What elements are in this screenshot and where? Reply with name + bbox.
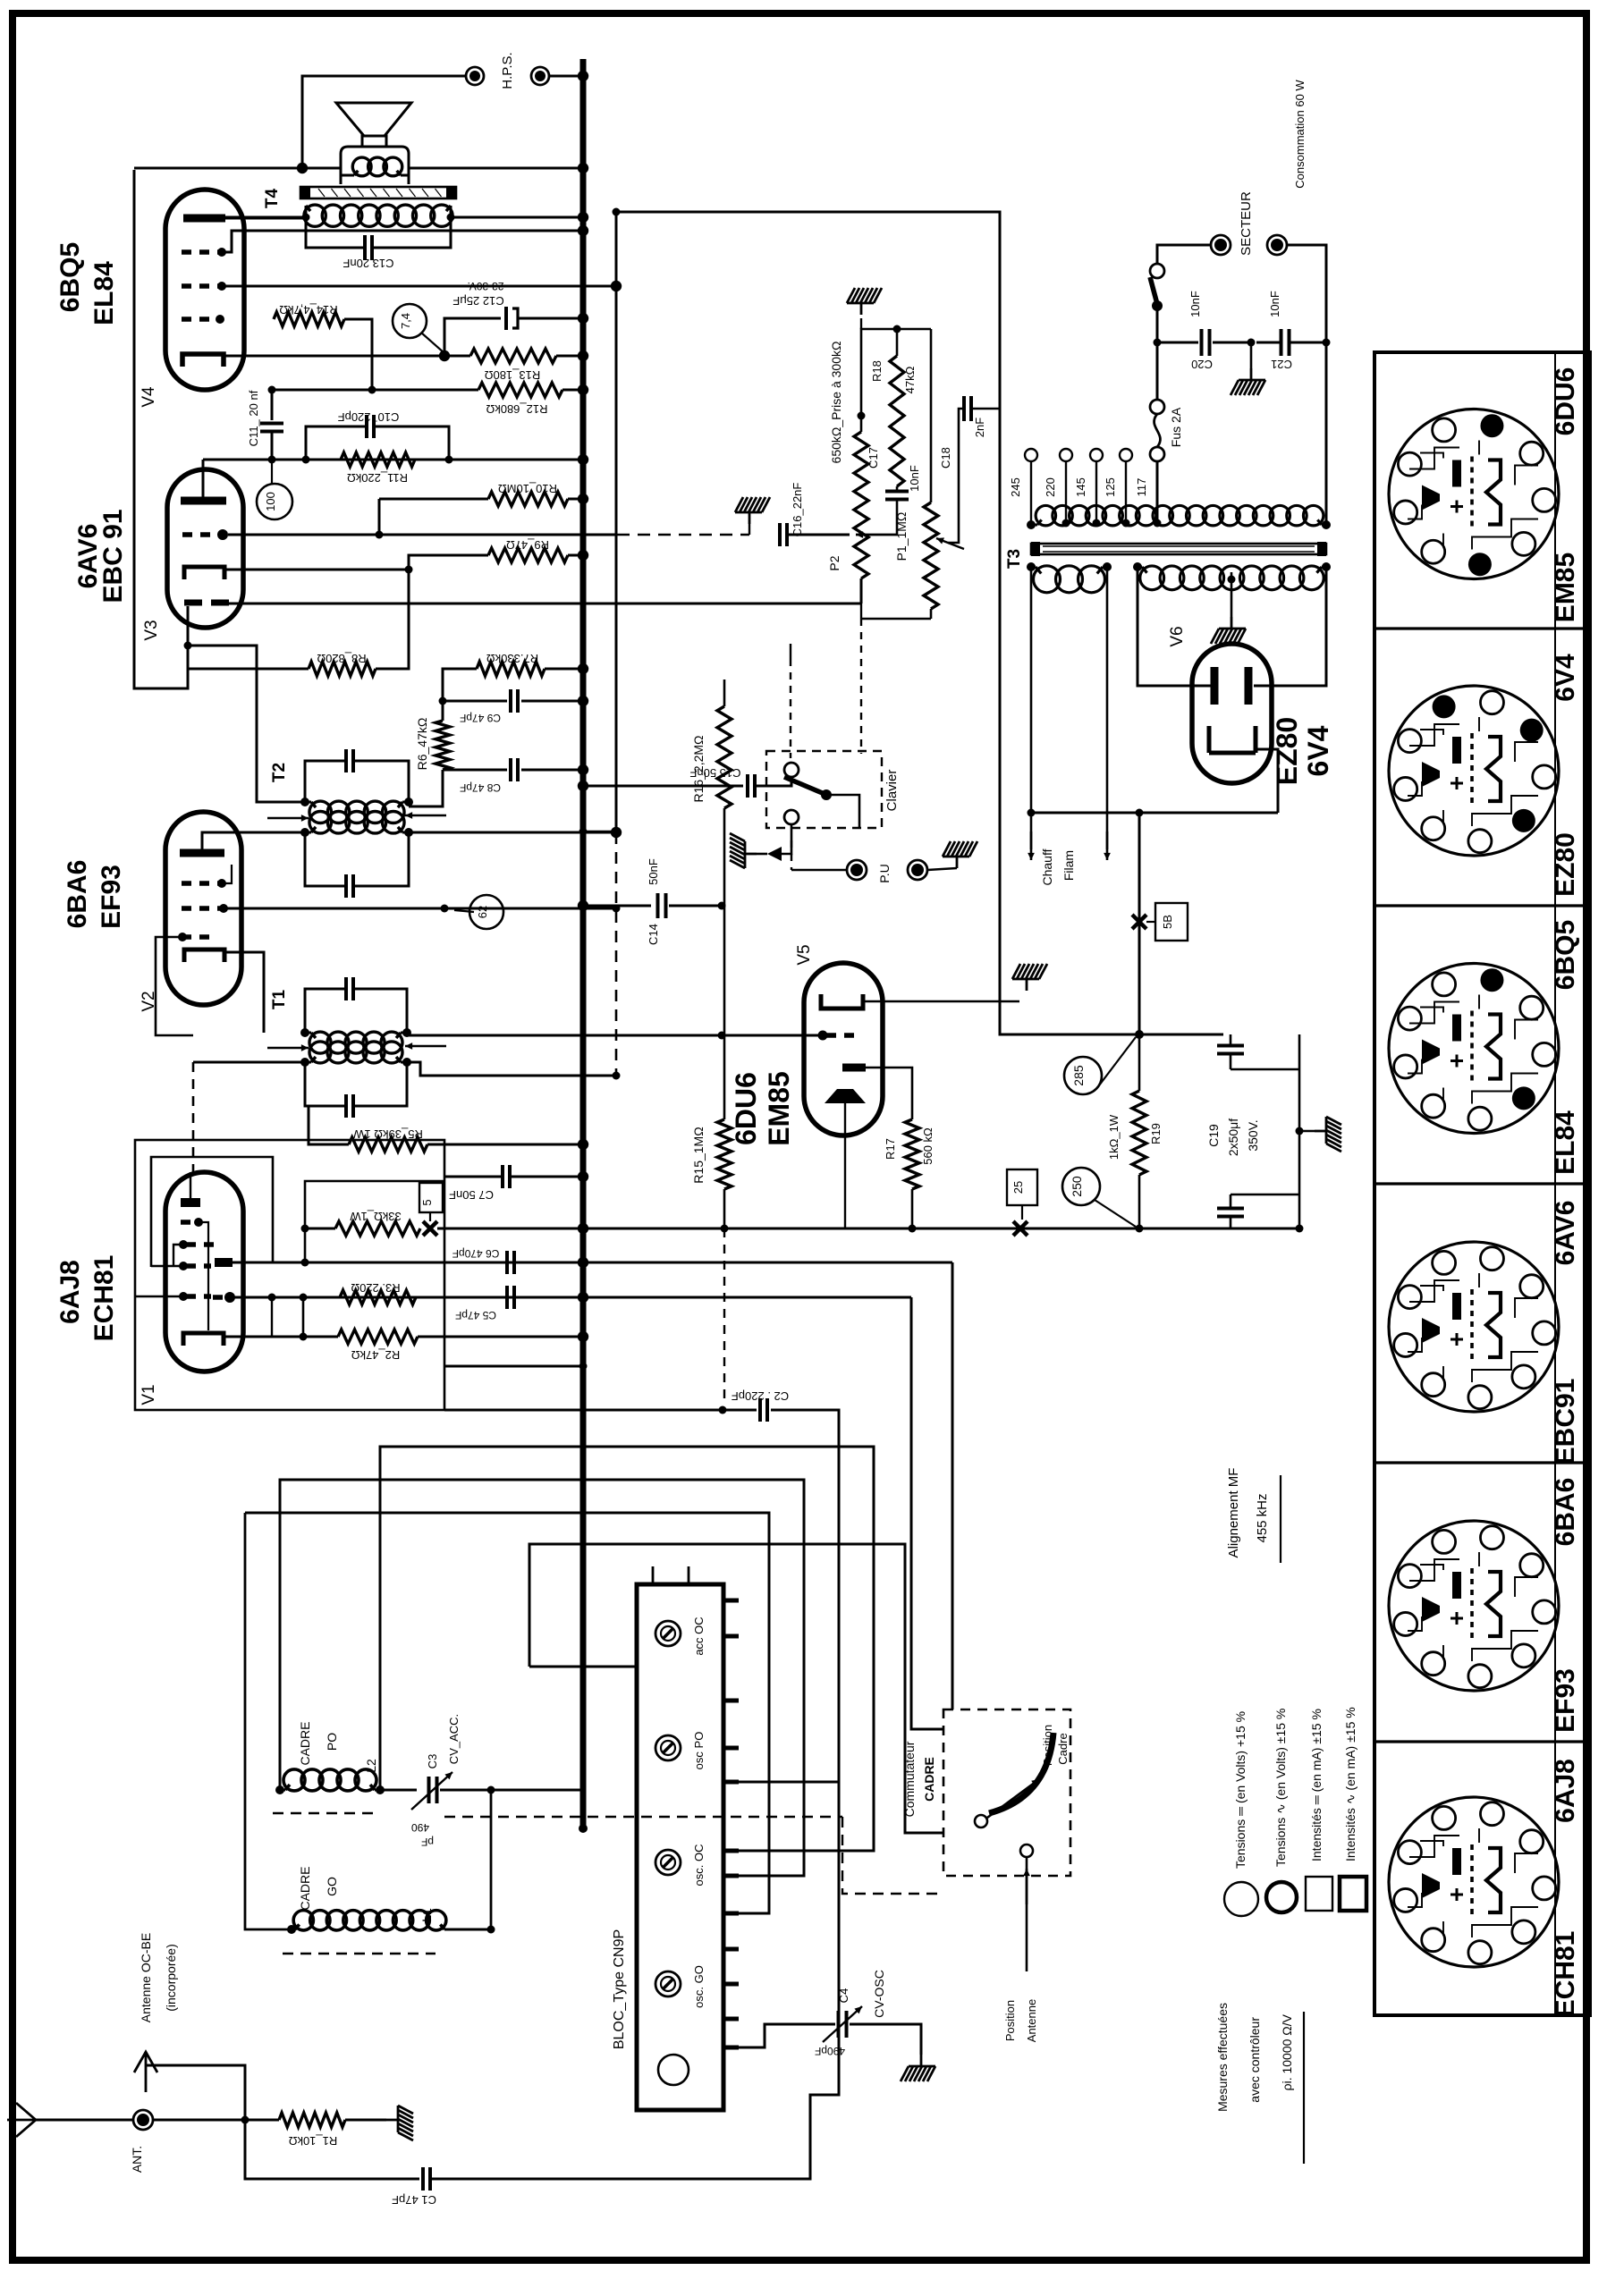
svg-text:6BQ5: 6BQ5 <box>1551 920 1580 990</box>
svg-text:C18: C18 <box>939 447 952 468</box>
svg-text:CADRE: CADRE <box>922 1757 936 1802</box>
V6 cathode <box>1209 726 1256 753</box>
svg-text:6DU6: 6DU6 <box>730 1072 762 1145</box>
wire bus-AVC link <box>583 831 616 833</box>
wire R15 bottom <box>723 1189 726 1228</box>
ground AVC line <box>735 497 770 524</box>
resistor R8 <box>309 662 376 676</box>
svg-text:C14: C14 <box>647 924 660 945</box>
V3 cathode <box>184 567 224 579</box>
wire R4 feed <box>305 1181 444 1262</box>
svg-text:10nF: 10nF <box>1188 291 1202 317</box>
svg-text:490pF: 490pF <box>815 2045 845 2057</box>
wire filament right <box>1106 567 1109 849</box>
tap 245 <box>1030 461 1032 523</box>
capacitor C2 <box>758 1398 762 1422</box>
clavier contact bottom <box>784 810 799 824</box>
svg-text:V2: V2 <box>140 991 158 1011</box>
svg-text:P.U: P.U <box>877 864 892 883</box>
svg-text:L2: L2 <box>364 1759 378 1773</box>
pointer box 5B <box>1155 903 1188 941</box>
wire V6 cathode out <box>1256 749 1278 813</box>
V1 cathode <box>183 1333 224 1346</box>
transformer T1 primary frame <box>305 1062 345 1106</box>
trimmer osc PO <box>655 1735 681 1760</box>
resistor R7 <box>477 662 545 676</box>
socket panel divider 2 <box>1374 904 1590 907</box>
svg-text:6AJ8: 6AJ8 <box>1551 1759 1580 1823</box>
V3 anode plate <box>181 497 226 505</box>
V4 grid3 row <box>182 283 220 289</box>
resistor R19 <box>1132 1091 1146 1175</box>
svg-text:47kΩ: 47kΩ <box>903 366 917 393</box>
legend square thin <box>1306 1877 1332 1911</box>
wire P1 bottom <box>930 609 933 619</box>
resistor R6 <box>436 721 450 770</box>
wire C15 to clavier <box>757 776 791 786</box>
wire C17 to wiper <box>856 500 897 535</box>
wire R16 top <box>723 680 726 706</box>
svg-text:Clavier: Clavier <box>884 770 900 812</box>
V2 grid2 row <box>182 934 215 940</box>
capacitor C8 <box>443 769 507 772</box>
wire position antenne arrow <box>1026 1857 1028 1971</box>
svg-text:C12 25μF: C12 25μF <box>452 294 503 308</box>
svg-text:Fus 2A: Fus 2A <box>1169 407 1183 447</box>
svg-text:650kΩ_Prise à 300kΩ: 650kΩ_Prise à 300kΩ <box>829 342 843 464</box>
svg-text:2x50μf: 2x50μf <box>1226 1118 1240 1156</box>
svg-text:C21: C21 <box>1271 358 1292 371</box>
socket panel outer box <box>1374 352 1590 2015</box>
antenna main symbol <box>7 2103 36 2137</box>
capacitor T2 secondary trimmer <box>344 749 348 772</box>
legend square thick <box>1340 1877 1366 1911</box>
tube V3 6AV6/EBC91 envelope <box>167 469 243 628</box>
V4 grid1 row <box>182 317 216 322</box>
wire secteur left <box>1157 245 1211 264</box>
svg-text:23-30V.: 23-30V. <box>468 280 504 292</box>
wire R16-R15 link <box>723 808 726 1119</box>
wire T2 primary left to V2 plate <box>202 832 305 849</box>
svg-text:CV_ACC.: CV_ACC. <box>447 1714 461 1764</box>
svg-text:ECH81: ECH81 <box>1551 1931 1580 2018</box>
svg-text:C7 50nF: C7 50nF <box>449 1188 494 1202</box>
clavier dashed box <box>766 751 882 828</box>
socket 6DU6 internal electrodes <box>1408 441 1538 550</box>
V1 heptode anode bar <box>215 1258 233 1267</box>
commutateur dashed box <box>943 1709 1070 1876</box>
terminal SECTEUR left <box>1211 235 1231 255</box>
wire C16 to P2 wiper <box>789 534 850 536</box>
svg-text:490: 490 <box>411 1821 429 1834</box>
wire C11 bottom <box>271 432 274 460</box>
svg-text:C8 47pF: C8 47pF <box>460 781 501 794</box>
wire R3-R2 link <box>302 1297 305 1337</box>
wire V1 g row1 internal <box>199 1222 208 1330</box>
svg-text:R19: R19 <box>1149 1123 1163 1144</box>
svg-text:117: 117 <box>1135 478 1148 497</box>
capacitor C4 variable <box>837 2011 841 2038</box>
coil T3 primary <box>1036 505 1055 525</box>
commutateur wiper <box>987 1779 1039 1818</box>
tap 125 <box>1122 519 1130 528</box>
V1 osc grid row <box>179 1292 188 1301</box>
meter circle 100 <box>257 484 292 519</box>
capacitor C5 <box>416 1296 503 1299</box>
wire C15 rail <box>583 785 743 788</box>
socket label divider <box>1554 1742 1556 2015</box>
V5 target screen <box>825 1089 866 1103</box>
resistor R12 <box>478 383 562 397</box>
svg-text:CV-OSC: CV-OSC <box>872 1970 886 2018</box>
pointer box 25 <box>1007 1169 1037 1205</box>
switch mains contact <box>1150 264 1164 278</box>
socket 6BA6 internal electrodes <box>1408 1552 1538 1661</box>
socket 6AV6/EBC91 circle <box>1389 1242 1559 1412</box>
coil T2 primary <box>309 811 331 832</box>
svg-text:350V.: 350V. <box>1246 1119 1260 1151</box>
svg-text:BLOC_Type CN9P: BLOC_Type CN9P <box>612 1929 627 2049</box>
socket 6BA6/EF93 circle <box>1389 1521 1559 1691</box>
svg-text:Filam: Filam <box>1061 850 1076 881</box>
terminal H.P.S. left <box>466 67 484 85</box>
resistor R5 <box>349 1137 427 1152</box>
ground V5 cathode <box>1012 964 1047 991</box>
V1 enclosing box <box>135 1140 444 1410</box>
socket 6DU6 pins <box>1398 452 1421 476</box>
socket 6BQ5 pins <box>1398 1007 1421 1030</box>
arrow P2 wiper <box>856 534 897 536</box>
socket 6V4 pins <box>1398 730 1421 753</box>
svg-text:R15_1MΩ: R15_1MΩ <box>691 1127 706 1183</box>
V3 diode plates <box>184 600 202 606</box>
capacitor C19a <box>1230 1034 1232 1044</box>
wire B+ from cathode <box>1138 813 1141 1034</box>
wire V1 top lead <box>190 1172 191 1203</box>
wire dashed GO link <box>444 1816 842 1818</box>
svg-text:R16_2,2MΩ: R16_2,2MΩ <box>691 735 706 802</box>
bloc terminal stubs <box>723 1599 739 1603</box>
svg-text:EF93: EF93 <box>97 865 126 929</box>
svg-text:560 kΩ: 560 kΩ <box>921 1127 935 1165</box>
svg-text:Position: Position <box>1003 2000 1017 2041</box>
wire T1 primary left osc (dashed) <box>193 1061 305 1064</box>
V1 grid row1 <box>181 1220 195 1225</box>
wire T1 secondary right to V5 grid <box>407 1034 823 1037</box>
svg-text:Commutateur: Commutateur <box>902 1741 917 1817</box>
wire R17 bottom <box>911 1189 914 1228</box>
svg-text:T4: T4 <box>263 188 282 208</box>
svg-text:R7.330kΩ: R7.330kΩ <box>486 652 538 665</box>
svg-text:C19: C19 <box>1206 1124 1221 1147</box>
svg-text:EM85: EM85 <box>1551 553 1580 622</box>
svg-text:C11_ 20 nf: C11_ 20 nf <box>247 390 260 446</box>
wire V4 plate lead <box>225 217 306 220</box>
coil T4 primary <box>304 205 326 226</box>
speaker LS cone <box>336 103 411 136</box>
svg-text:CADRE: CADRE <box>298 1866 312 1910</box>
capacitor C12 electrolytic <box>444 318 501 356</box>
V1 screen feed box <box>151 1157 273 1267</box>
V5 grid row <box>818 1031 828 1041</box>
wire V5 target down <box>844 1103 846 1228</box>
coil T3 HT secondary <box>1140 566 1164 590</box>
terminal SECTEUR right <box>1267 235 1287 255</box>
wire V3 plate rail <box>203 459 583 461</box>
capacitor C16 <box>778 523 782 546</box>
wire T1 primary right <box>407 1062 616 1076</box>
capacitor C15 <box>746 774 749 798</box>
svg-text:R8_820Ω: R8_820Ω <box>317 652 367 665</box>
capacitor T1 secondary trimmer <box>344 977 348 1000</box>
svg-text:osc. OC: osc. OC <box>692 1844 706 1887</box>
wire P2 top node <box>861 329 931 416</box>
wire V2 g1 long (AVC) <box>224 907 616 910</box>
svg-text:220: 220 <box>1044 477 1057 497</box>
wire V4 g3 long <box>222 285 616 288</box>
trimmer acc OC <box>655 1621 681 1646</box>
tuning arrows T2 <box>267 817 309 820</box>
svg-text:T3: T3 <box>1005 549 1024 569</box>
svg-text:EZ80: EZ80 <box>1271 717 1303 785</box>
V1 grid row3 <box>179 1262 188 1270</box>
ground HT center <box>1211 617 1246 644</box>
svg-text:Tensions ∿ (en Volts) ±15 %: Tensions ∿ (en Volts) ±15 % <box>1273 1709 1288 1867</box>
svg-text:Tensions ═ (en Volts) +15: Tensions ═ (en Volts) +15 % <box>1233 1711 1248 1869</box>
socket 6AJ8 pins <box>1398 1841 1421 1864</box>
node speaker-wire <box>297 163 308 173</box>
switch mains lever <box>1150 277 1157 304</box>
coil T1 primary <box>309 1042 331 1063</box>
svg-text:100: 100 <box>264 492 277 511</box>
socket panel divider 1 <box>1374 627 1590 629</box>
resistor R9 <box>488 548 568 562</box>
capacitor C6 <box>505 1251 509 1274</box>
wire AVC vertical <box>615 212 618 832</box>
resistor R16 <box>717 706 732 808</box>
svg-text:125: 125 <box>1104 477 1117 497</box>
meter circle 285 <box>1064 1057 1102 1094</box>
svg-text:C4: C4 <box>837 1988 850 2004</box>
svg-text:C6 470pF: C6 470pF <box>452 1247 500 1260</box>
svg-text:T2: T2 <box>270 763 289 782</box>
wire secteur right <box>1287 245 1326 525</box>
svg-text:6AJ8: 6AJ8 <box>55 1260 85 1324</box>
svg-text:P1_1MΩ: P1_1MΩ <box>894 512 909 561</box>
transformer T4 core <box>300 187 456 198</box>
V5 cathode staple <box>821 994 863 1009</box>
wire fuse to tap <box>1156 461 1159 523</box>
bloc top stubs <box>652 1566 655 1584</box>
tube V4 6BQ5/EL84 envelope <box>165 190 244 390</box>
wire PU right ground <box>927 868 957 870</box>
svg-text:Antenne OC-BE: Antenne OC-BE <box>139 1933 153 2022</box>
trimmer osc OC <box>655 1850 681 1875</box>
svg-text:Position: Position <box>1041 1725 1054 1766</box>
socket 6AJ8/ECH81 circle <box>1389 1797 1559 1967</box>
svg-text:6BA6: 6BA6 <box>1551 1478 1580 1547</box>
wire bloc stub links <box>739 2024 835 2047</box>
legend circle thin <box>1224 1882 1258 1916</box>
socket 6AV6 pins <box>1398 1286 1421 1309</box>
svg-text:avec contrôleur: avec contrôleur <box>1248 2017 1262 2103</box>
wire C11 top <box>272 389 372 392</box>
svg-text:R1_10kΩ: R1_10kΩ <box>288 2134 337 2148</box>
terminal PU right <box>908 860 927 880</box>
svg-text:Consommation 60 W: Consommation 60 W <box>1293 80 1307 189</box>
wire bundle v x1019 <box>911 1297 943 1729</box>
svg-text:C10˙ 220pF: C10˙ 220pF <box>338 410 400 424</box>
svg-text:6BQ5: 6BQ5 <box>55 242 85 312</box>
resistor R10 <box>488 492 568 506</box>
svg-text:SECTEUR: SECTEUR <box>1239 191 1254 256</box>
resistor R14 <box>274 312 344 326</box>
wire T2 primary right (AVC) <box>409 831 616 834</box>
coil T2 secondary <box>309 801 331 823</box>
ground P2 top <box>847 288 882 315</box>
wire filament left <box>1030 567 1033 849</box>
V6 anode plates <box>1211 667 1219 705</box>
svg-text:EF93: EF93 <box>1551 1668 1580 1733</box>
svg-text:R14_4,7kΩ: R14_4,7kΩ <box>279 303 338 317</box>
svg-text:EZ80: EZ80 <box>1551 832 1580 897</box>
socket 6AV6 internal electrodes <box>1408 1273 1538 1382</box>
ground mains filter <box>1250 342 1253 368</box>
capacitor C18 <box>962 396 966 421</box>
svg-text:pF: pF <box>421 1836 434 1848</box>
svg-text:EL84: EL84 <box>1551 1110 1580 1175</box>
svg-text:R9_47Ω: R9_47Ω <box>506 538 549 552</box>
socket 6V4/EZ80 circle <box>1389 686 1559 856</box>
resistor R15 <box>717 1119 732 1189</box>
wire clavier to PU <box>782 824 791 854</box>
svg-text:EBC 91: EBC 91 <box>98 509 128 603</box>
svg-text:245: 245 <box>1009 477 1022 497</box>
wire V1 box bottom rail <box>444 1409 757 1412</box>
V4 grid2 row <box>182 249 220 255</box>
legend circle thick <box>1266 1882 1297 1912</box>
wire R1 to ground <box>345 2119 386 2122</box>
wire bundle v x1065 <box>952 1262 954 1709</box>
wire V2 g2 left <box>156 937 193 1035</box>
wire ant to R1 <box>153 2119 279 2122</box>
coil T4 secondary <box>352 157 371 176</box>
wire PU dashed <box>791 840 792 870</box>
coil L1 CADRE GO <box>293 1911 313 1930</box>
wire clavier lever out <box>826 795 859 828</box>
svg-text:Intensités ∿ (en mA) ±15 %: Intensités ∿ (en mA) ±15 % <box>1343 1707 1357 1861</box>
wire HT long bottom <box>583 1228 1163 1230</box>
BLOC box <box>637 1584 723 2110</box>
capacitor C21 <box>1280 329 1283 356</box>
X mark 25 <box>1013 1221 1028 1236</box>
wire HT right to V6 <box>1254 567 1326 686</box>
svg-text:Cadre: Cadre <box>1056 1733 1070 1764</box>
wire HT+ bus <box>580 59 587 1828</box>
wire AVC dashed to C2 <box>723 1228 725 1404</box>
svg-text:Mesures effectuées: Mesures effectuées <box>1215 2003 1230 2112</box>
capacitor C7 <box>501 1165 504 1188</box>
commutateur lower contact <box>1020 1844 1033 1857</box>
capacitor C10 <box>306 426 365 460</box>
dashed core L1 <box>283 1953 436 1955</box>
svg-text:Chauff: Chauff <box>1040 848 1054 885</box>
socket 6DU6/EM85 circle <box>1389 409 1559 579</box>
X mark R4 <box>423 1221 437 1236</box>
wire T4 primary right to bus <box>451 206 583 217</box>
svg-text:C17: C17 <box>867 447 880 468</box>
wire C19 common <box>1298 1034 1301 1228</box>
svg-text:2nF: 2nF <box>973 418 986 437</box>
wire y1528 <box>444 1365 583 1368</box>
svg-text:GO: GO <box>325 1877 339 1896</box>
svg-text:R18: R18 <box>870 360 884 382</box>
wire R6 bottom to T2 <box>409 770 443 806</box>
terminal ANT <box>36 2119 132 2122</box>
wire V4 g2 to bus <box>222 231 583 252</box>
clavier lever <box>784 777 825 794</box>
antenna OC-BE symbol <box>134 2052 157 2092</box>
transformer T1 secondary frame <box>305 989 345 1033</box>
wire V4 cathode <box>224 355 444 358</box>
wire CV vertical <box>490 1790 493 1929</box>
speaker body / T4 secondary frame <box>341 147 409 184</box>
dashed core L2 <box>273 1812 376 1815</box>
wire T4 primary left to V4 plate <box>225 206 306 217</box>
capacitor C20 <box>1157 342 1198 344</box>
wire B+ feed top <box>616 212 1223 1034</box>
svg-text:C16_22nF: C16_22nF <box>791 483 804 537</box>
capacitor C14 <box>656 893 660 918</box>
arrow P1 wiper <box>936 538 964 549</box>
svg-text:Alignement MF: Alignement MF <box>1226 1468 1241 1558</box>
svg-text:R17: R17 <box>884 1138 897 1160</box>
pointer box 5 <box>419 1183 443 1212</box>
wire antenna OC-BE <box>146 2065 245 2120</box>
socket label divider <box>1554 629 1556 906</box>
tuning arrows T1 <box>267 1047 309 1050</box>
coil L2 CADRE PO <box>283 1769 305 1791</box>
svg-text:C13 20nF: C13 20nF <box>343 257 393 270</box>
svg-text:250: 250 <box>1070 1176 1084 1197</box>
svg-text:V3: V3 <box>142 620 161 640</box>
resistor R18 <box>890 356 904 486</box>
wire HT left to V6 <box>1138 567 1211 686</box>
wire V1 cathode <box>224 1336 338 1338</box>
wire C14 rail <box>583 905 651 907</box>
V3 grid row <box>182 532 215 537</box>
resistor R3 <box>340 1290 416 1304</box>
svg-text:5B: 5B <box>1161 915 1174 929</box>
svg-text:145: 145 <box>1074 477 1087 497</box>
wire L1 right <box>444 1929 491 1931</box>
svg-text:osc PO: osc PO <box>692 1732 706 1770</box>
svg-text:EM85: EM85 <box>763 1071 795 1146</box>
capacitor C13 <box>306 221 363 248</box>
node bus-end <box>579 1824 588 1833</box>
svg-text:osc. GO: osc. GO <box>692 1965 706 2008</box>
svg-text:ρi. 10000 Ω/V: ρi. 10000 Ω/V <box>1280 2013 1294 2090</box>
V5 anode bar <box>842 1064 866 1072</box>
wire frame nest y1618 <box>380 1447 874 1851</box>
wire C18 <box>948 409 962 543</box>
capacitor T2 primary trimmer <box>344 874 348 898</box>
socket 6BQ5/EL84 circle <box>1389 964 1559 1134</box>
wire V3 plate lead <box>202 460 205 501</box>
svg-text:Intensités ═ (en mA) ±15 %: Intensités ═ (en mA) ±15 % <box>1309 1709 1324 1861</box>
svg-text:PO: PO <box>325 1733 339 1751</box>
V2 grid1 row <box>182 906 220 911</box>
